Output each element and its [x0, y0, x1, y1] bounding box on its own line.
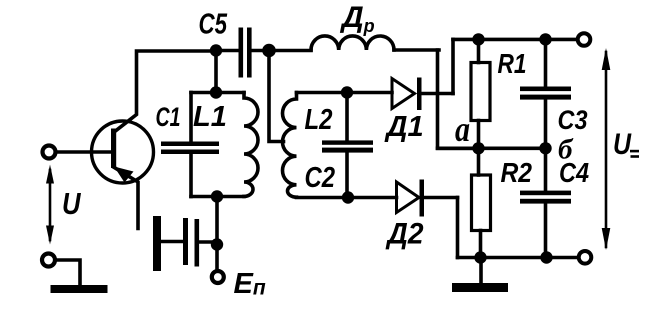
svg-text:C1: C1: [156, 102, 181, 132]
svg-text:U: U: [62, 186, 82, 221]
svg-text:L1: L1: [193, 101, 227, 133]
svg-text:U: U: [613, 128, 632, 161]
svg-text:Д1: Д1: [384, 111, 424, 143]
svg-text:Еп: Еп: [234, 268, 266, 300]
svg-text:R1: R1: [498, 48, 527, 79]
svg-text:L2: L2: [305, 104, 333, 136]
svg-text:Д2: Д2: [385, 218, 424, 251]
svg-text:C3: C3: [558, 105, 588, 135]
svg-text:Др: Др: [339, 1, 375, 36]
svg-text:а: а: [455, 109, 470, 149]
svg-text:R2: R2: [501, 157, 533, 188]
svg-text:б: б: [558, 133, 574, 165]
svg-text:C5: C5: [199, 9, 228, 41]
svg-text:C2: C2: [305, 162, 336, 194]
